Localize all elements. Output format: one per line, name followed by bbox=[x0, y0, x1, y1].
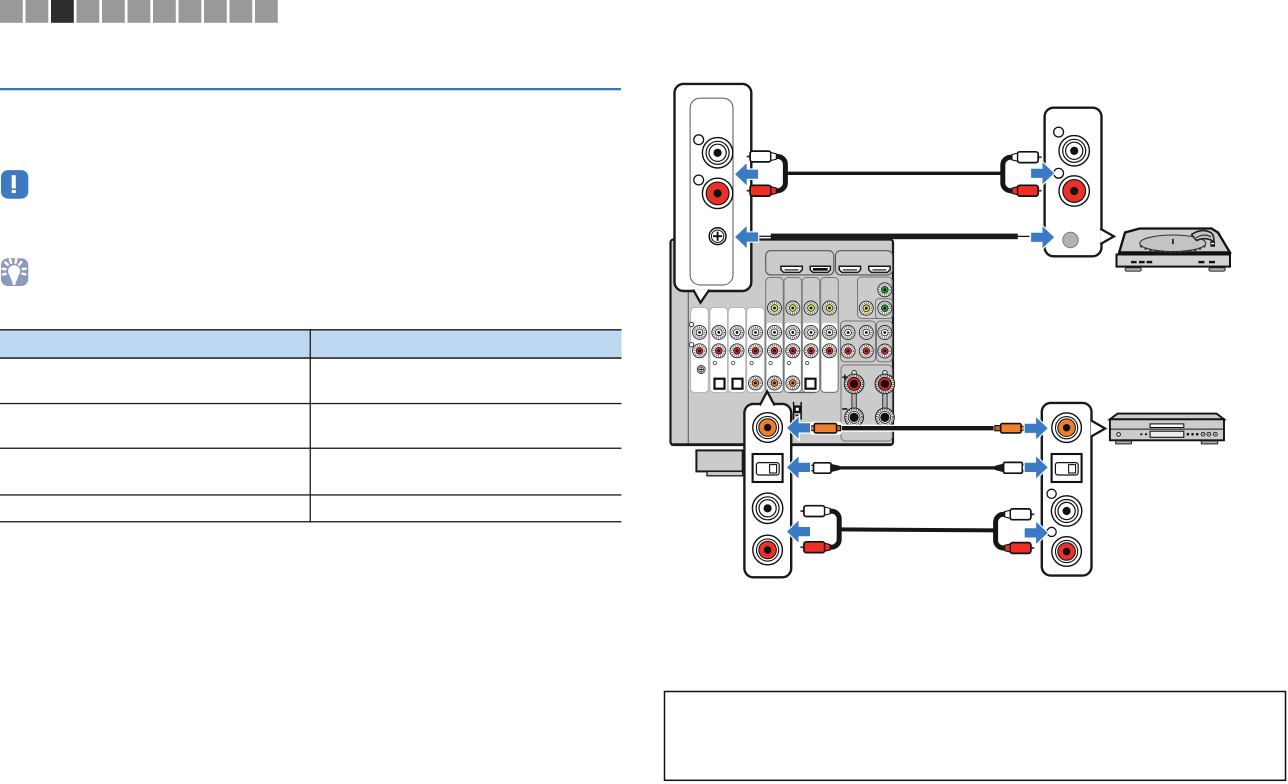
receiver foot step bbox=[707, 471, 743, 475]
white strip col1 bbox=[691, 308, 709, 393]
turntable top deck bbox=[1119, 229, 1230, 253]
arrow out CD optical bbox=[1025, 456, 1048, 478]
white strip col2 bbox=[710, 308, 728, 393]
CD player top face bbox=[1110, 414, 1224, 420]
pin holes row bbox=[713, 361, 809, 364]
coaxial out jack bbox=[1052, 413, 1082, 443]
white strip col5 bbox=[767, 323, 783, 392]
CD player foot left bbox=[1116, 441, 1132, 444]
HDMI port 3 bbox=[839, 266, 860, 272]
CD small dots bbox=[1140, 433, 1198, 436]
table line top bbox=[0, 329, 622, 330]
yellow video jack col6 bbox=[786, 301, 800, 315]
HDMI port 4 bbox=[869, 266, 890, 272]
turntable platter bbox=[1140, 235, 1206, 252]
white RCA out L bbox=[1051, 496, 1081, 526]
white strip col6 bbox=[785, 323, 801, 392]
audio box C bbox=[841, 321, 876, 362]
nav square 1 bbox=[0, 0, 23, 23]
arrow out turntable L/R bbox=[1031, 162, 1054, 184]
white RCA jack PHONO L bbox=[702, 138, 732, 168]
white strip col7 bbox=[803, 323, 819, 392]
stereo cable bottom: core bbox=[838, 529, 998, 530]
arrow into optical bbox=[787, 456, 810, 478]
white plug bottom-left bbox=[801, 506, 831, 517]
arrow out turntable GND bbox=[1031, 226, 1054, 248]
red plug top-right bbox=[1012, 185, 1042, 196]
coax jack col5 bbox=[768, 376, 782, 390]
ground wire thick run bbox=[771, 234, 1018, 240]
optical jack bbox=[753, 454, 783, 482]
white audio jacks row bbox=[693, 325, 892, 339]
CD power button bbox=[1117, 433, 1121, 437]
white RCA jack AV L bbox=[752, 493, 782, 523]
stereo cable top: right Y-bracket bbox=[1003, 157, 1012, 191]
bubble pointer right bbox=[1100, 229, 1114, 245]
white plug top-left bbox=[747, 151, 777, 162]
table line row1 bbox=[0, 403, 622, 404]
white strip col4 bbox=[747, 308, 765, 393]
table line bottom bbox=[0, 521, 622, 522]
coaxial jack bbox=[753, 413, 783, 443]
CD player foot right bbox=[1201, 441, 1217, 444]
jack strip col5 bbox=[766, 278, 784, 393]
turntable front dashes bbox=[1131, 261, 1215, 263]
HDMI port 1 bbox=[781, 266, 802, 272]
heading rule bbox=[0, 88, 621, 90]
minus sign bbox=[842, 408, 847, 410]
optical square col2 bbox=[715, 379, 725, 389]
CD player front face bbox=[1110, 419, 1224, 440]
GND screw terminal bbox=[697, 366, 705, 374]
arrow into GND bbox=[735, 226, 758, 248]
stereo cable top: left Y-bracket bbox=[776, 157, 785, 191]
audio box D bbox=[877, 321, 893, 362]
speaker terminal box bbox=[841, 365, 892, 441]
AV receiver rear panel body bbox=[671, 240, 894, 446]
note frame box bbox=[665, 692, 1286, 781]
AC cord block bbox=[793, 402, 802, 420]
white RCA jack L bbox=[1059, 136, 1089, 166]
bubble pointer up bbox=[760, 391, 775, 405]
stereo bottom right Y-bracket bbox=[996, 514, 1005, 548]
pin hole 4 bbox=[1047, 527, 1056, 536]
jack strip col7 bbox=[802, 278, 820, 393]
arrow out CD analog bbox=[1025, 522, 1048, 544]
bubble inner frame bbox=[690, 98, 733, 285]
pin hole L bbox=[694, 135, 704, 145]
optical square col7 bbox=[806, 379, 816, 389]
optical plug left bbox=[811, 463, 840, 473]
speaker hole left bbox=[852, 370, 857, 375]
speaker stem left bbox=[852, 390, 856, 410]
optical cable run bbox=[838, 465, 996, 471]
speaker knob red left bbox=[844, 374, 864, 394]
CD round buttons bbox=[1201, 432, 1217, 436]
red plug bottom-right bbox=[1005, 543, 1035, 554]
white strip col8 bbox=[822, 323, 838, 392]
nav square 7 bbox=[153, 0, 176, 23]
coaxial cable run bbox=[838, 425, 997, 432]
red RCA jack AV R bbox=[753, 535, 783, 565]
nav square 5 bbox=[102, 0, 125, 23]
yellow video jack AV4 bbox=[859, 301, 873, 315]
HDMI port 2 (occupied) bbox=[810, 266, 830, 272]
yellow video jack col5 bbox=[768, 301, 782, 315]
red RCA jack PHONO R bbox=[702, 178, 732, 208]
HDMI group box 2 bbox=[836, 251, 893, 275]
speaker hole right bbox=[883, 370, 888, 375]
nav square 9 bbox=[204, 0, 227, 23]
nav square 11 bbox=[255, 0, 278, 23]
tonearm bbox=[1192, 231, 1216, 247]
GND screw jack bbox=[709, 228, 726, 245]
CD player face divider bbox=[1111, 428, 1224, 430]
red plug bottom-left bbox=[801, 542, 831, 553]
pin hole 3 bbox=[1047, 489, 1056, 498]
optical plug right bbox=[995, 462, 1026, 473]
col1 pin holes bbox=[689, 322, 693, 347]
arrow into PHONO bbox=[735, 163, 758, 185]
table line under header bbox=[0, 357, 622, 359]
nav square 2 bbox=[26, 0, 49, 23]
platter rim hatching bbox=[1140, 246, 1205, 253]
component video box B bbox=[876, 299, 893, 319]
component video box A bbox=[858, 277, 893, 319]
coax plug right bbox=[994, 422, 1025, 435]
platter spindle bbox=[1172, 239, 1174, 244]
tip icon bbox=[1, 258, 28, 286]
pin hole 2 bbox=[1054, 168, 1064, 178]
arrow out CD coax bbox=[1025, 417, 1048, 439]
nav square 4 bbox=[77, 0, 100, 23]
pin hole R bbox=[694, 175, 704, 185]
coax jack col4 bbox=[749, 376, 763, 390]
callout bubble receiver digital/analog (bottom-left) bbox=[744, 404, 791, 577]
receiver foot bbox=[696, 450, 742, 471]
panel left section divider bbox=[687, 241, 689, 445]
table line row3 bbox=[0, 494, 622, 495]
turntable GND post bbox=[1063, 232, 1078, 247]
stereo bottom left Y-bracket bbox=[830, 511, 839, 547]
table line row2 bbox=[0, 448, 622, 449]
ground wire left lead bbox=[757, 235, 773, 237]
table header fill bbox=[0, 330, 622, 358]
table column divider bbox=[310, 329, 311, 522]
nav square 3 (active) bbox=[51, 0, 74, 23]
speaker knob black left bbox=[845, 408, 864, 427]
white strip col3 bbox=[728, 308, 746, 393]
red RCA jack R bbox=[1059, 176, 1089, 206]
notice icon bbox=[1, 170, 28, 199]
CD display window bbox=[1150, 431, 1184, 437]
bubble pointer down bbox=[693, 290, 709, 303]
red plug top-left bbox=[747, 185, 777, 196]
speaker knob black right bbox=[876, 408, 895, 427]
panel bottom edge bbox=[671, 443, 893, 445]
white plug top-right bbox=[1012, 152, 1042, 163]
callout bubble CD output (bottom-right) bbox=[1042, 403, 1092, 576]
speaker stem right bbox=[883, 390, 887, 410]
HDMI group box 1 bbox=[766, 251, 834, 275]
bubble pointer right 2 bbox=[1091, 420, 1105, 436]
red RCA out R bbox=[1052, 537, 1082, 567]
stereo cable bottom: casing bbox=[839, 529, 995, 530]
jack strip col8 bbox=[821, 278, 839, 393]
plus sign bbox=[842, 375, 847, 380]
yellow video jack col8 bbox=[823, 301, 837, 315]
coax plug left bbox=[810, 422, 842, 435]
CD tray slot bbox=[1150, 424, 1184, 428]
green component jack Y bbox=[878, 301, 892, 315]
nav square 6 bbox=[128, 0, 151, 23]
arrow into AV audio bbox=[787, 521, 810, 543]
nav square 8 bbox=[179, 0, 202, 23]
turntable foot right bbox=[1209, 268, 1225, 271]
yellow video jack col7 bbox=[804, 301, 818, 315]
pin hole bbox=[1054, 127, 1064, 137]
nav square 10 bbox=[230, 0, 253, 23]
stereo cable top: core bbox=[783, 172, 1005, 175]
jack strip col6 bbox=[784, 278, 802, 393]
turntable front face bbox=[1117, 255, 1231, 267]
green component jack PB bbox=[878, 283, 892, 297]
panel marking line bbox=[790, 392, 815, 394]
callout bubble AUDIO/PHONO (top-left) bbox=[675, 84, 752, 291]
white plug bottom-right bbox=[1005, 509, 1035, 520]
coax jack col6 bbox=[786, 376, 800, 390]
turntable foot left bbox=[1125, 268, 1141, 271]
stereo cable top: casing bbox=[785, 170, 1003, 176]
arrow into coax bbox=[787, 417, 810, 439]
callout bubble turntable output (top-right) bbox=[1045, 108, 1102, 257]
optical out jack bbox=[1052, 454, 1082, 482]
ground wire right lead bbox=[1018, 235, 1030, 237]
speaker knob red right bbox=[875, 374, 895, 394]
optical square col3 bbox=[733, 379, 743, 389]
red audio jacks row bbox=[693, 344, 892, 358]
